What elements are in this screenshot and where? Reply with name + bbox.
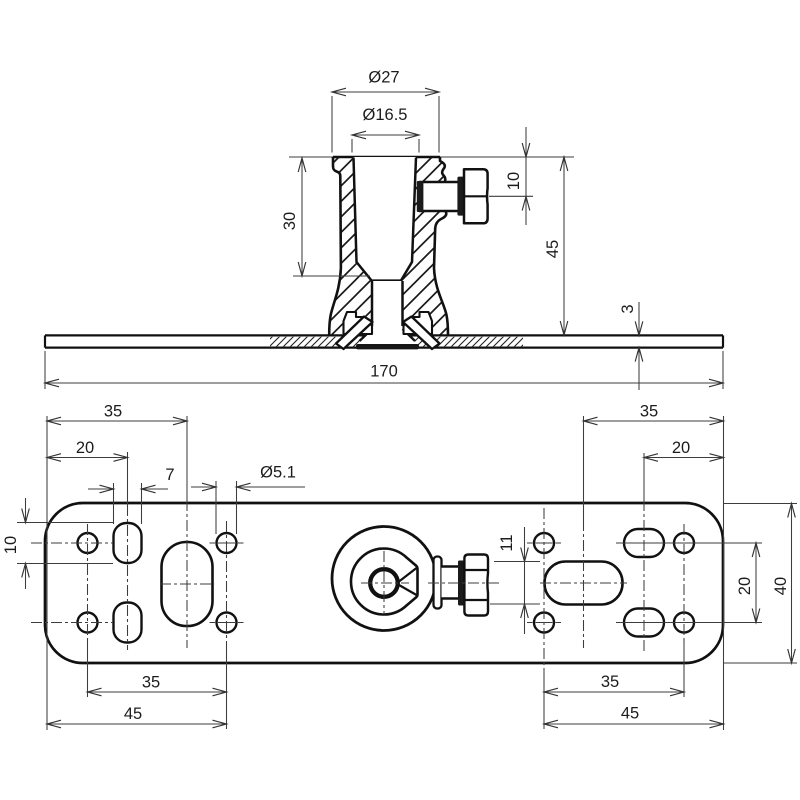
boss outer circle [332, 527, 436, 631]
svg-text:45: 45 [124, 705, 142, 723]
dim 170 extension right [722, 351, 724, 389]
clamp wedge lines [399, 568, 417, 595]
svg-text:7: 7 [165, 466, 174, 484]
dim 35 top-left [47, 403, 187, 425]
extension row top right / dim 20 [616, 542, 762, 544]
wire top reference line [289, 156, 574, 158]
svg-text:3: 3 [619, 304, 637, 313]
svg-text:10: 10 [505, 172, 523, 190]
bolt head facet lines plan [464, 570, 488, 600]
dim 11 [498, 527, 528, 634]
dim 170 [45, 363, 723, 387]
svg-text:10: 10 [2, 536, 20, 554]
plate section hatch [270, 337, 523, 347]
extension row bottom right / dim 20 [616, 622, 762, 624]
dim 10 left [2, 498, 29, 589]
svg-text:Ø16.5: Ø16.5 [363, 106, 408, 124]
svg-text:11: 11 [498, 534, 516, 551]
slot left oval top [114, 523, 142, 563]
hole H7 &#216;5.1 [674, 533, 694, 553]
svg-text:30: 30 [281, 212, 299, 230]
dim 10 left ext bottom [17, 563, 113, 565]
svg-text:40: 40 [772, 577, 790, 595]
svg-text:45: 45 [544, 240, 562, 258]
svg-text:35: 35 [142, 674, 160, 692]
svg-text:20: 20 [736, 577, 754, 595]
svg-text:35: 35 [640, 403, 658, 421]
centerline right holes col [543, 508, 545, 729]
extension plate left tangent [46, 416, 48, 730]
clamp tooth left [344, 312, 373, 334]
hole H1 &#216;5.1 [78, 533, 98, 553]
dim 45 side [544, 157, 568, 335]
spring washer left [336, 317, 373, 350]
plate outline (plan) [45, 503, 723, 663]
hole H8 &#216;5.1 [674, 613, 694, 633]
dim 35 top-right [584, 403, 724, 425]
spring washer right [403, 317, 440, 350]
dim 35 bottom-left [88, 674, 227, 696]
centerline left slot [186, 416, 188, 648]
socket bore cavity [354, 157, 417, 281]
dim Ø27 [332, 69, 439, 96]
hole H2 &#216;5.1 [78, 613, 98, 633]
plate right end [722, 335, 724, 347]
dim 20 top-right [644, 439, 724, 461]
centerline left slot horizontal [160, 583, 214, 585]
dim 10 top [505, 127, 530, 225]
centerline right slot horizontal [540, 582, 627, 584]
extension BL 35 left [87, 638, 89, 697]
rivet flare (white) [360, 326, 416, 345]
centerline small holes col [226, 521, 228, 729]
clamp tooth right [404, 312, 433, 334]
bolt head side [464, 169, 488, 223]
dim 10 left ext top [17, 522, 113, 524]
slot left big [162, 542, 213, 626]
hole H5 &#216;5.1 [534, 533, 554, 553]
dim 7 [88, 466, 175, 493]
centerline left ovals [127, 452, 129, 650]
dim Ø27 extension left [331, 96, 333, 153]
extension plate right tangent [723, 416, 725, 730]
svg-text:Ø5.1: Ø5.1 [260, 464, 296, 482]
dim 40 ext top [723, 503, 797, 505]
dim 40 right [772, 504, 795, 664]
centerline left holes col [87, 524, 89, 641]
socket top edge [333, 156, 440, 159]
dim Ø27 extension right [438, 96, 440, 153]
hole H6 &#216;5.1 [534, 613, 554, 633]
dim 7 ext right [141, 483, 143, 524]
bolt head facet line [464, 195, 488, 197]
bolt head plan [464, 555, 488, 616]
svg-text:20: 20 [672, 439, 690, 457]
dim Ø16.5 extension right [418, 139, 420, 153]
centerline outer right holes [683, 524, 685, 697]
centerline right ovals [643, 453, 645, 652]
dim 45 bottom-left [47, 705, 227, 728]
dim 30 extension [293, 275, 370, 277]
centerline small holes top [210, 542, 244, 544]
svg-text:35: 35 [601, 673, 619, 691]
centerline bolt axis plan [428, 582, 500, 584]
bolt shaft plan [442, 567, 460, 599]
dim 3 [619, 302, 643, 390]
centerline row bottom left [31, 622, 113, 624]
plate left end [44, 335, 46, 347]
centerline row top left [31, 542, 113, 544]
dim 45 bottom-right [544, 705, 724, 728]
centerline small holes bottom [210, 622, 244, 624]
centerline right holes bottom [527, 622, 561, 624]
plate bottom edge [45, 347, 723, 349]
hole H3 &#216;5.1 [217, 533, 237, 553]
dim Ø5.1 [191, 464, 305, 491]
centerline right slot [583, 416, 585, 648]
bolt band plan [458, 561, 464, 606]
svg-text:45: 45 [621, 705, 639, 723]
bolt shaft side [419, 182, 464, 211]
wire bolt axis extension [489, 195, 533, 197]
dim Ø16.5 [352, 106, 419, 139]
slot left oval bottom [114, 603, 142, 643]
clamp pad [417, 181, 424, 212]
boss crosshair [361, 551, 409, 614]
svg-text:20: 20 [76, 439, 94, 457]
dim 20 right [736, 543, 760, 623]
svg-text:170: 170 [370, 363, 398, 381]
stem [372, 281, 403, 335]
boss cast profile [351, 549, 418, 615]
centerline right holes top [527, 542, 561, 544]
hole H4 &#216;5.1 [217, 613, 237, 633]
slot right oval top [624, 529, 664, 557]
boss inner circle [370, 569, 398, 597]
plate top edge [45, 334, 723, 336]
dim 20 top-left [47, 439, 128, 461]
dim 30 [281, 158, 306, 276]
dim 7 ext left [113, 483, 115, 524]
socket body section (hatched) [329, 157, 448, 335]
slot right big [545, 562, 623, 605]
bolt washer side [457, 177, 464, 216]
dim 170 extension left [44, 351, 46, 389]
bore bottom edge [372, 279, 402, 281]
svg-text:35: 35 [104, 403, 122, 421]
rivet foot [356, 344, 419, 349]
bolt washer plan [434, 557, 442, 609]
dim 11 ext bottom [490, 603, 540, 605]
dim 40 ext bottom [723, 662, 797, 664]
dim Ø16.5 extension left [351, 139, 353, 153]
dim Ø5.1 ext right [236, 481, 238, 534]
dim 11 ext top [494, 561, 540, 563]
slot right oval bottom [624, 609, 664, 637]
dim 35 bottom-right [544, 673, 684, 696]
svg-text:Ø27: Ø27 [368, 69, 399, 87]
dim Ø5.1 ext left [215, 481, 217, 534]
